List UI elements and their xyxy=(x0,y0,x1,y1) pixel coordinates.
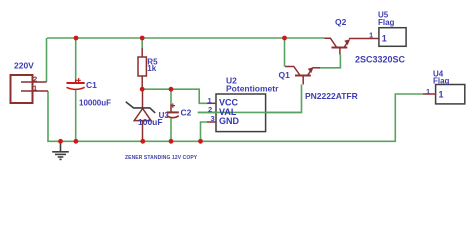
svg-text:PN2222ATFR: PN2222ATFR xyxy=(305,91,358,101)
svg-text:C1: C1 xyxy=(86,80,97,90)
wire top rail xyxy=(47,37,325,39)
svg-text:10000uF: 10000uF xyxy=(79,99,111,108)
svg-text:1: 1 xyxy=(439,89,444,99)
wire connector pin2 riser xyxy=(46,38,48,82)
svg-text:220V: 220V xyxy=(14,61,34,71)
junction dot rail C1 xyxy=(74,139,79,144)
junction dot top C1 xyxy=(74,36,79,41)
wire U2 VAL to Q1 base xyxy=(198,85,302,113)
flag U5 xyxy=(379,28,406,47)
potentiometer U2 xyxy=(198,94,302,132)
capacitor C1 xyxy=(67,78,85,89)
wire C2 bottom xyxy=(170,119,172,142)
ground symbol xyxy=(52,141,69,159)
svg-text:1k: 1k xyxy=(147,64,156,73)
wire connector pin1 to ground rail and flag U4 xyxy=(48,91,423,141)
svg-text:1: 1 xyxy=(369,31,373,40)
junction dot node C2 top xyxy=(169,87,174,92)
wire R5 top xyxy=(141,38,143,48)
svg-text:1: 1 xyxy=(426,87,430,96)
wire Q1 emitter to Q2 base xyxy=(320,55,341,68)
svg-text:3: 3 xyxy=(211,114,215,123)
U4 pin lead xyxy=(423,93,436,95)
junction dot rail U2 GND xyxy=(198,139,203,144)
svg-text:1: 1 xyxy=(33,84,37,93)
wire C1 column xyxy=(75,38,77,141)
junction dot rail zener xyxy=(140,139,145,144)
wire R5 bottom node to U2 pin1 xyxy=(142,89,207,103)
wire U2 GND to rail xyxy=(201,122,208,141)
junction dot rail C2 xyxy=(169,139,174,144)
capacitor C2 xyxy=(167,103,179,117)
svg-text:ZENER STANDING 12V COPY: ZENER STANDING 12V COPY xyxy=(125,155,198,161)
svg-text:1: 1 xyxy=(208,96,212,105)
svg-text:Q2: Q2 xyxy=(335,17,347,27)
transistor Q2 xyxy=(325,38,380,54)
resistor R5 xyxy=(138,48,146,89)
svg-text:100uF: 100uF xyxy=(138,117,163,127)
connector pin 1 lead xyxy=(21,90,48,92)
zener diode U3 xyxy=(126,89,155,141)
svg-text:GND: GND xyxy=(219,116,240,126)
svg-text:1: 1 xyxy=(382,34,387,44)
wire C2 top xyxy=(170,89,172,104)
svg-text:2: 2 xyxy=(208,105,212,114)
svg-text:2: 2 xyxy=(33,75,37,84)
svg-text:2SC3320SC: 2SC3320SC xyxy=(355,55,406,65)
connector pin 2 lead xyxy=(21,81,47,83)
junction dot top R5 xyxy=(140,36,145,41)
connector J1 220V body xyxy=(11,75,33,103)
junction dot ground xyxy=(58,139,63,144)
svg-text:Potentiometr: Potentiometr xyxy=(226,84,279,94)
flag U4 xyxy=(436,85,465,104)
junction dot top Q1 xyxy=(282,36,287,41)
junction dot node R5-zener xyxy=(140,87,145,92)
svg-text:Flag: Flag xyxy=(378,18,395,27)
transistor Q1 xyxy=(285,67,320,85)
svg-text:C2: C2 xyxy=(181,108,192,118)
svg-text:Q1: Q1 xyxy=(279,70,291,80)
svg-text:Flag: Flag xyxy=(433,77,450,86)
wire Q1 collector riser xyxy=(284,38,286,67)
